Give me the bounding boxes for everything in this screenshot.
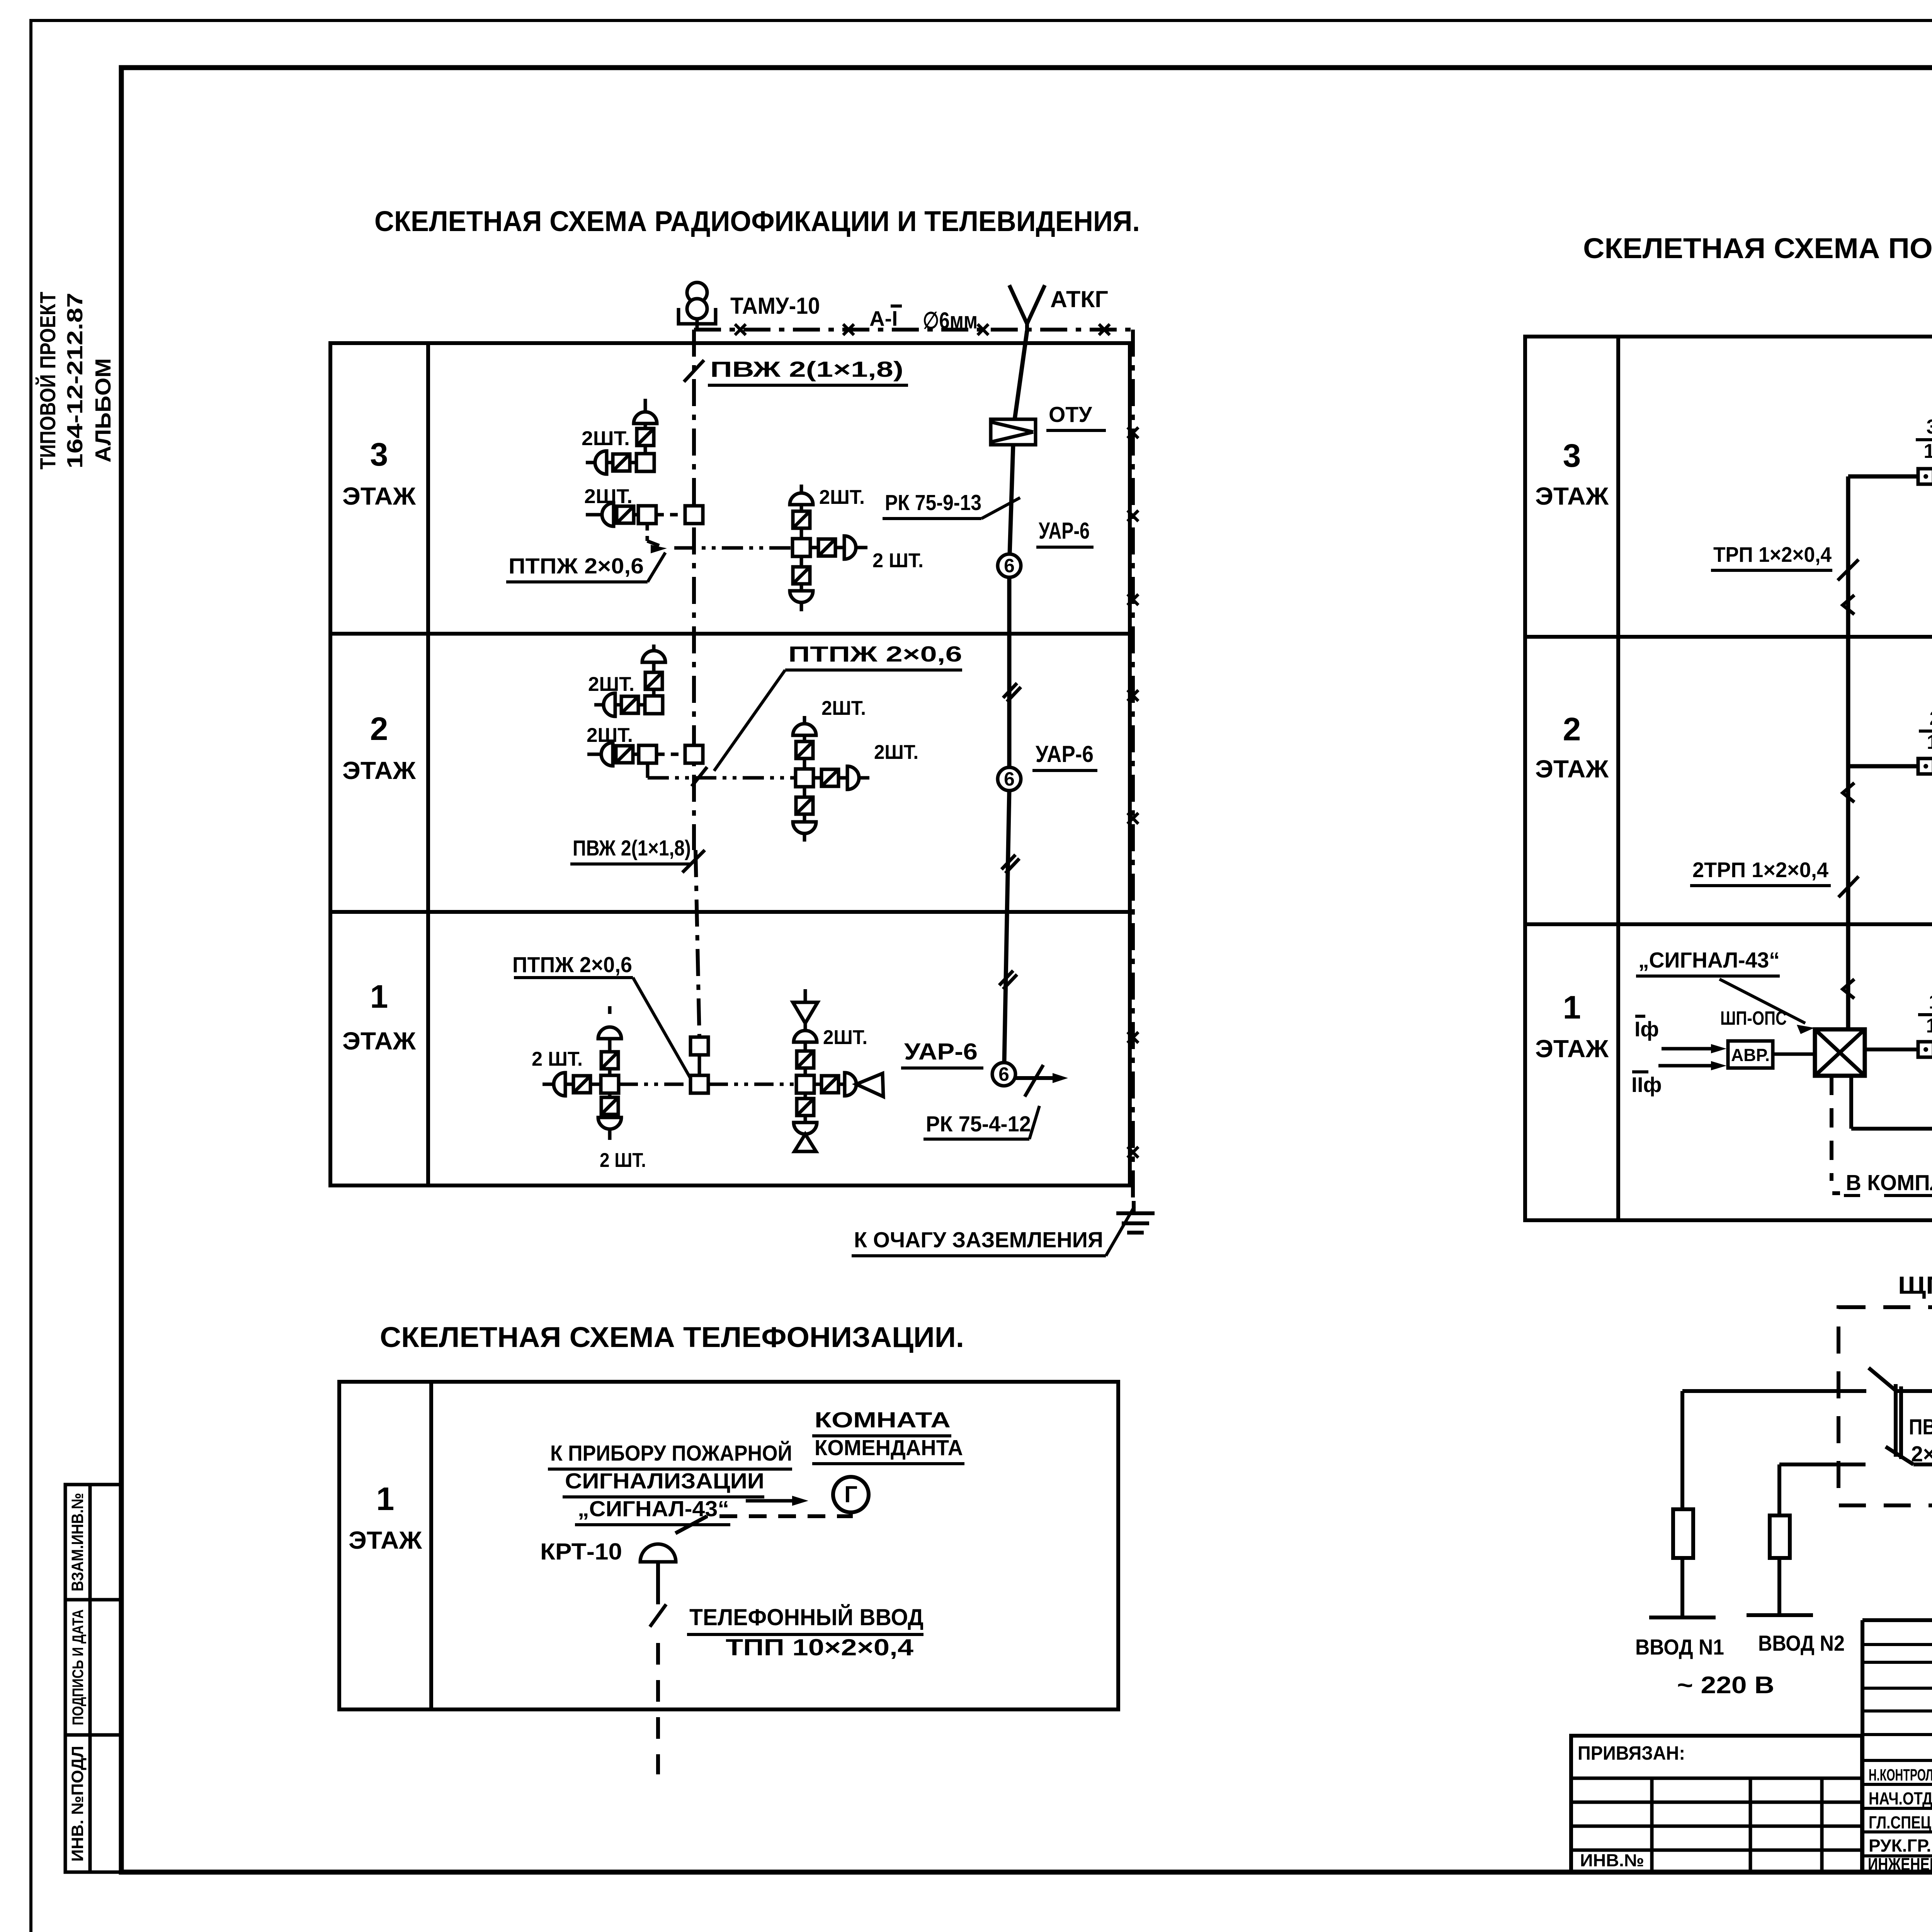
svg-text:ТАМУ-10: ТАМУ-10 [730,293,820,319]
svg-text:3: 3 [370,436,388,473]
svg-text:1-2: 1-2 [1927,731,1932,753]
svg-text:КОМЕНДАНТА: КОМЕНДАНТА [815,1435,963,1460]
svg-text:КОМНАТА: КОМНАТА [815,1408,951,1432]
svg-text:Н.КОНТРОЛЬ: Н.КОНТРОЛЬ [1869,1766,1932,1784]
svg-text:ПРИВЯЗАН:: ПРИВЯЗАН: [1578,1742,1685,1764]
svg-text:ВЗАМ.ИНВ.№: ВЗАМ.ИНВ.№ [68,1493,87,1592]
svg-text:1-2: 1-2 [1926,1015,1932,1037]
svg-text:АВР.: АВР. [1731,1045,1770,1065]
svg-text:2ШТ.: 2ШТ. [821,697,866,719]
svg-text:2ТРП 1×2×0,4: 2ТРП 1×2×0,4 [1692,858,1828,882]
svg-text:ЭТАЖ: ЭТАЖ [342,1027,416,1055]
svg-text:Iф: Iф [1634,1017,1659,1041]
svg-text:∅6мм: ∅6мм [923,308,978,333]
svg-text:ПТПЖ 2×0,6: ПТПЖ 2×0,6 [509,554,644,578]
svg-text:2ШТ.: 2ШТ. [819,486,865,509]
svg-text:1-2: 1-2 [1923,440,1932,463]
svg-text:К ОЧАГУ ЗАЗЕМЛЕНИЯ: К ОЧАГУ ЗАЗЕМЛЕНИЯ [854,1228,1103,1252]
svg-text:РУК.ГР.: РУК.ГР. [1869,1836,1931,1855]
svg-text:3: 3 [1563,437,1581,474]
svg-text:1: 1 [376,1481,395,1517]
svg-text:2: 2 [370,711,388,747]
svg-text:2 ШТ.: 2 ШТ. [872,549,923,572]
svg-text:ЭТАЖ: ЭТАЖ [349,1526,422,1554]
svg-text:ТИПОВОЙ ПРОЕКТ: ТИПОВОЙ ПРОЕКТ [35,292,60,469]
svg-text:ИНВ.№: ИНВ.№ [1580,1850,1644,1870]
svg-text:ЭТАЖ: ЭТАЖ [1535,755,1609,783]
svg-text:РК 75-9-13: РК 75-9-13 [885,490,981,515]
svg-text:ТПП 10×2×0,4: ТПП 10×2×0,4 [726,1634,914,1660]
svg-text:СКЕЛЕТНАЯ СХЕМА ПОЖАРНОЙ СИГНА: СКЕЛЕТНАЯ СХЕМА ПОЖАРНОЙ СИГНАЛИЗАЦИИ. [1583,232,1932,264]
svg-text:РК 75-4-12: РК 75-4-12 [926,1112,1031,1136]
svg-text:IIф: IIф [1631,1073,1662,1097]
svg-text:УАР-6: УАР-6 [904,1039,978,1065]
svg-text:СКЕЛЕТНАЯ СХЕМА РАДИОФИКАЦИИ И: СКЕЛЕТНАЯ СХЕМА РАДИОФИКАЦИИ И ТЕЛЕВИДЕН… [374,205,1140,237]
svg-text:ТРП 1×2×0,4: ТРП 1×2×0,4 [1713,543,1832,566]
svg-text:164-12-212.87: 164-12-212.87 [63,293,87,469]
svg-text:ЩП-ОПС: ЩП-ОПС [1898,1271,1932,1299]
svg-text:6: 6 [1004,555,1015,577]
svg-text:3: 3 [1927,416,1932,438]
svg-text:1: 1 [1563,989,1581,1026]
svg-text:~ 220 В: ~ 220 В [1677,1672,1774,1699]
svg-text:2 ШТ.: 2 ШТ. [532,1048,583,1070]
svg-text:ГЛ.СПЕЦ.: ГЛ.СПЕЦ. [1869,1813,1932,1832]
svg-text:ЭТАЖ: ЭТАЖ [1535,1035,1609,1063]
svg-text:АТКГ: АТКГ [1050,286,1108,312]
svg-text:Г: Г [844,1481,857,1507]
svg-text:УАР-6: УАР-6 [1039,518,1090,544]
svg-text:ЭТАЖ: ЭТАЖ [342,482,416,510]
svg-text:ШП-ОПС: ШП-ОПС [1720,1007,1787,1029]
svg-text:„СИГНАЛ-43“: „СИГНАЛ-43“ [1638,948,1780,973]
svg-text:2: 2 [1563,711,1581,747]
svg-text:ПТПЖ 2×0,6: ПТПЖ 2×0,6 [788,642,962,667]
svg-text:НАЧ.ОТД.: НАЧ.ОТД. [1869,1789,1932,1808]
svg-text:ЭТАЖ: ЭТАЖ [342,757,416,784]
svg-text:2: 2 [1930,707,1932,730]
svg-text:УАР-6: УАР-6 [1036,741,1094,767]
svg-text:ВВОД N2: ВВОД N2 [1758,1631,1845,1656]
svg-text:СКЕЛЕТНАЯ СХЕМА ТЕЛЕФОНИЗАЦИИ.: СКЕЛЕТНАЯ СХЕМА ТЕЛЕФОНИЗАЦИИ. [380,1321,964,1353]
svg-text:6: 6 [1004,768,1015,790]
svg-text:КРТ-10: КРТ-10 [540,1539,622,1565]
svg-text:ВВОД N1: ВВОД N1 [1635,1635,1724,1660]
svg-text:2ШТ.: 2ШТ. [588,673,634,696]
svg-text:ПОДПИСЬ И ДАТА: ПОДПИСЬ И ДАТА [70,1609,87,1725]
svg-text:1: 1 [1929,991,1932,1013]
svg-text:2 ШТ.: 2 ШТ. [600,1149,646,1172]
svg-text:А-I: А-I [869,306,898,330]
svg-text:К ПРИБОРУ ПОЖАРНОЙ: К ПРИБОРУ ПОЖАРНОЙ [550,1440,792,1466]
svg-text:АЛЬБОМ: АЛЬБОМ [91,358,116,463]
svg-text:ТЕЛЕФОННЫЙ ВВОД: ТЕЛЕФОННЫЙ ВВОД [689,1604,923,1630]
svg-text:В КОМПЛЕКСНУЮ ТЕЛЕФОННУЮ СЕТЬ: В КОМПЛЕКСНУЮ ТЕЛЕФОННУЮ СЕТЬ [1846,1170,1932,1195]
svg-text:ИНВ. №ПОДЛ: ИНВ. №ПОДЛ [68,1746,87,1862]
svg-text:1: 1 [370,978,388,1015]
svg-text:ОТУ: ОТУ [1049,402,1092,427]
svg-text:ПТПЖ 2×0,6: ПТПЖ 2×0,6 [512,952,632,977]
svg-text:ЭТАЖ: ЭТАЖ [1535,482,1609,510]
svg-text:2ШТ.: 2ШТ. [874,741,918,764]
svg-text:2ШТ.: 2ШТ. [582,427,630,450]
svg-text:ИНЖЕНЕР: ИНЖЕНЕР [1868,1854,1932,1874]
svg-text:ПВЖ 2(1×1,8): ПВЖ 2(1×1,8) [573,836,691,861]
svg-text:ПВЖ 2(1×1,8): ПВЖ 2(1×1,8) [710,357,903,382]
svg-text:СИГНАЛИЗАЦИИ: СИГНАЛИЗАЦИИ [565,1469,764,1493]
svg-text:2ШТ.: 2ШТ. [823,1026,867,1049]
svg-text:6: 6 [998,1063,1009,1085]
svg-text:ПВМ: ПВМ [1909,1415,1932,1439]
